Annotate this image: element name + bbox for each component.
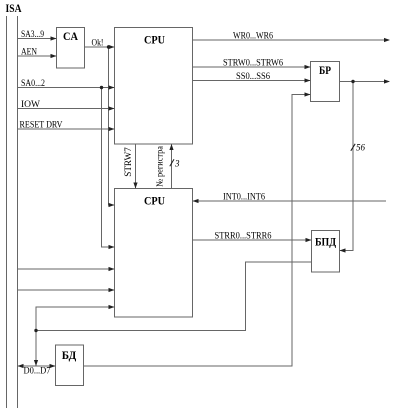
wire D0...D7 bus to BD	[18, 365, 55, 367]
wire SA0...2 branch to CPU2	[102, 88, 115, 248]
arrow WR0...WR6 right end	[384, 38, 390, 42]
svg-text:3: 3	[174, 159, 180, 169]
svg-text:БД: БД	[62, 350, 77, 362]
svg-text:D0...D7: D0...D7	[24, 366, 51, 376]
junction dot Ok! branch	[107, 45, 110, 48]
wire Ok! branch to CPU2	[109, 47, 115, 205]
block BPD	[312, 231, 340, 273]
svg-text:ISA: ISA	[6, 3, 23, 15]
svg-text:SS0...SS6: SS0...SS6	[236, 71, 270, 81]
arrow D0...D7 into bus	[18, 364, 24, 368]
svg-text:STRW0...STRW6: STRW0...STRW6	[223, 58, 283, 68]
junction dot BR output	[351, 80, 354, 83]
wire STRW0...STRW6 to BR	[193, 66, 311, 68]
wire IOW to CPU1	[18, 108, 115, 110]
wire SA3...9 to CA	[18, 38, 57, 40]
arrow INT0...INT6 into CPU2	[193, 199, 199, 203]
svg-text:RESET DRV: RESET DRV	[20, 120, 63, 130]
wire INT0...INT6	[193, 200, 386, 202]
arrow 56-bit net into BPD	[340, 248, 346, 252]
block BR	[311, 62, 340, 102]
block BD	[56, 345, 84, 386]
svg-text:Ok!: Ok!	[92, 38, 104, 48]
block CA	[57, 28, 85, 69]
wire BR output	[340, 81, 390, 83]
wire D net to CPU2	[36, 307, 114, 366]
wire 56-bit net BR to BPD	[340, 82, 353, 251]
arrow SS0...SS6 into BR	[305, 78, 311, 82]
junction dot SA0...2 branch	[100, 86, 103, 89]
svg-text:SA0...2: SA0...2	[21, 78, 45, 88]
svg-text:БПД: БПД	[315, 237, 336, 249]
wire STRW7 CPU1 to CPU2	[135, 144, 137, 188]
arrow SA0...2 into CPU1	[109, 85, 115, 89]
arrow Ok! branch into CPU2	[109, 203, 115, 207]
wire bus to CPU2 input b	[18, 289, 115, 291]
wire D net to BPD	[36, 262, 312, 331]
wire SA0...2 to CPU1	[18, 87, 115, 89]
svg-text:БР: БР	[319, 65, 331, 77]
wire WR0...WR6	[193, 39, 390, 41]
svg-text:WR0...WR6: WR0...WR6	[233, 31, 273, 41]
arrow BR output right end	[384, 79, 390, 83]
arrow D0...D7 into BD	[50, 364, 56, 368]
wire register number CPU2 to CPU1	[171, 145, 173, 189]
wire STRR0...STRR6 to BPD	[193, 239, 312, 241]
svg-text:56: 56	[356, 143, 366, 153]
svg-text:CPU: CPU	[144, 35, 166, 47]
svg-text:INT0...INT6: INT0...INT6	[223, 192, 265, 202]
arrow STRW0...STRW6 into BR	[305, 65, 311, 69]
arrow register number into CPU1	[169, 144, 173, 150]
arrow D net down into D0...D7 line	[34, 360, 38, 366]
ISA bus line left	[6, 16, 8, 408]
junction dot D net to BPD branch	[34, 329, 37, 332]
arrow BD net into BR	[305, 92, 311, 96]
svg-text:SA3...9: SA3...9	[21, 29, 44, 39]
arrow STRR0...STRR6 into BPD	[306, 238, 312, 242]
arrow SA3...9 into CA	[51, 36, 57, 40]
svg-text:CA: CA	[63, 31, 79, 43]
arrow bus into CPU2 input a	[109, 267, 115, 271]
bus width slash 3	[170, 159, 174, 166]
arrow STRW7 into CPU2	[133, 183, 137, 189]
block CPU U1	[115, 28, 193, 145]
arrow AEN into CA	[51, 54, 57, 58]
arrow bus into CPU2 input b	[109, 288, 115, 292]
wire AEN to CA	[18, 55, 57, 57]
svg-text:№ регистра: № регистра	[155, 146, 165, 187]
arrow SA0...2 branch into CPU2	[109, 245, 115, 249]
svg-text:IOW: IOW	[21, 99, 41, 109]
wire Ok! CA to CPU1	[85, 46, 115, 48]
bus width slash 56	[351, 144, 355, 151]
arrow Ok! into CPU1	[109, 45, 115, 49]
svg-text:STRR0...STRR6: STRR0...STRR6	[215, 231, 272, 241]
wire SS0...SS6 to BR	[193, 80, 311, 82]
arrow D net into CPU2	[109, 305, 115, 309]
block CPU U2	[115, 189, 193, 318]
arrow IOW into CPU1	[109, 106, 115, 110]
ISA bus line right	[17, 16, 19, 408]
wire bus to CPU2 input a	[18, 268, 115, 270]
wire BD output to BR input	[84, 95, 311, 367]
arrow RESET DRV into CPU1	[109, 127, 115, 131]
svg-text:STRW7: STRW7	[123, 147, 133, 177]
svg-text:AEN: AEN	[21, 47, 37, 57]
svg-text:CPU: CPU	[144, 196, 166, 208]
wire RESET DRV to CPU1	[18, 128, 115, 130]
